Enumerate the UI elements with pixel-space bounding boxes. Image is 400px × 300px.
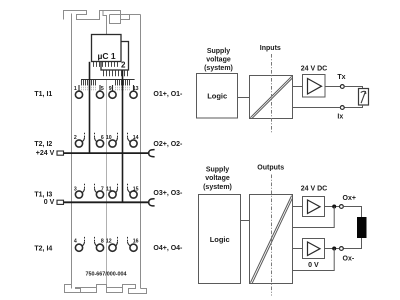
svg-text:4: 4 bbox=[74, 239, 77, 245]
svg-text:14: 14 bbox=[133, 135, 139, 141]
svg-text:T1, I3: T1, I3 bbox=[34, 191, 52, 198]
terminal 10 bbox=[106, 132, 118, 147]
wire isolator to driver1 bbox=[293, 206, 303, 208]
uC2 pins bbox=[104, 70, 128, 76]
svg-text:Logic: Logic bbox=[210, 235, 230, 244]
driver amp box output+ bbox=[303, 197, 325, 217]
svg-text:Logic: Logic bbox=[207, 92, 227, 101]
comb dotted teeth right bbox=[116, 85, 130, 91]
contact comb bar bbox=[81, 79, 135, 81]
comb dotted teeth left bbox=[82, 85, 96, 91]
isolator (galvanic separation) bottom bbox=[250, 195, 293, 284]
svg-text:Supply: Supply bbox=[206, 167, 229, 174]
load (actuator) bbox=[357, 217, 367, 238]
sensor (proximity switch) bbox=[359, 89, 369, 106]
wire 0V feed (uC2 to 0V rail) bbox=[122, 70, 124, 202]
module center separator bbox=[106, 80, 108, 285]
svg-text:O1+, O1-: O1+, O1- bbox=[153, 91, 183, 98]
terminal 11 bbox=[106, 183, 117, 198]
svg-text:Supply: Supply bbox=[207, 48, 230, 55]
svg-text:16: 16 bbox=[133, 239, 139, 245]
node Ix bbox=[340, 106, 344, 110]
isolator (galvanic separation) top bbox=[250, 76, 293, 119]
terminal 5 bbox=[96, 85, 104, 98]
module housing bottom profile bbox=[65, 285, 147, 294]
uC1 pins bbox=[94, 62, 118, 67]
terminal 2 bbox=[74, 132, 85, 147]
terminal 12 bbox=[106, 236, 118, 251]
wire logic to isolator bottom bbox=[241, 220, 250, 222]
label Supply voltage (system) bottom bbox=[203, 167, 232, 192]
terminal 15 bbox=[128, 183, 139, 198]
terminal 3 bbox=[74, 183, 85, 198]
svg-text:+24 V: +24 V bbox=[36, 150, 55, 157]
terminal 8 bbox=[95, 236, 104, 251]
svg-text:Inputs: Inputs bbox=[260, 45, 281, 52]
isolation boundary dash-dot top bbox=[271, 54, 273, 133]
svg-text:O4+, O4-: O4+, O4- bbox=[153, 245, 183, 252]
terminal 9 bbox=[109, 85, 116, 98]
0V left tab connector bbox=[57, 200, 64, 204]
0V bus rail bbox=[64, 201, 150, 203]
svg-text:6: 6 bbox=[101, 135, 104, 141]
svg-text:750-667/000-004: 750-667/000-004 bbox=[85, 272, 126, 278]
+24V left tab connector bbox=[57, 151, 64, 155]
isolation boundary dash-dot bottom bbox=[271, 175, 273, 296]
wire driver to Tx bbox=[325, 86, 340, 88]
svg-text:O2+, O2-: O2+, O2- bbox=[153, 141, 183, 148]
feedback wire output- bbox=[293, 249, 335, 271]
svg-text:Tx: Tx bbox=[337, 74, 345, 81]
+24V bus rail bbox=[64, 152, 150, 154]
svg-text:8: 8 bbox=[101, 239, 104, 245]
svg-text:(system): (system) bbox=[203, 184, 232, 191]
terminal 4 bbox=[74, 236, 85, 251]
wire isolator to driver2 bbox=[293, 248, 303, 250]
svg-text:10: 10 bbox=[106, 135, 112, 141]
svg-text:11: 11 bbox=[106, 186, 112, 192]
terminal 14 bbox=[128, 132, 139, 147]
wire from data bus contact to uC bbox=[103, 11, 107, 35]
svg-text:voltage: voltage bbox=[205, 175, 230, 182]
+24V right socket connector bbox=[149, 150, 155, 157]
node Ox- bbox=[340, 247, 344, 251]
svg-text:3: 3 bbox=[74, 186, 77, 192]
feedback wire output+ bbox=[293, 207, 335, 228]
wire Ox- to driver2 bbox=[325, 248, 340, 250]
svg-text:(system): (system) bbox=[204, 65, 233, 72]
svg-text:Ox+: Ox+ bbox=[343, 195, 356, 202]
svg-text:0 V: 0 V bbox=[44, 199, 55, 206]
wire Ox+ to load bbox=[343, 207, 361, 218]
svg-text:2: 2 bbox=[121, 61, 126, 70]
svg-text:T1, I1: T1, I1 bbox=[34, 91, 52, 98]
wire isolator to driver top bbox=[293, 86, 303, 88]
logic box bottom bbox=[199, 195, 241, 284]
node Ox+ bbox=[340, 205, 344, 209]
svg-text:2: 2 bbox=[74, 135, 77, 141]
svg-text:5: 5 bbox=[101, 86, 104, 92]
junction dot output- bbox=[332, 247, 336, 251]
svg-text:O3+, O3-: O3+, O3- bbox=[153, 190, 183, 197]
wire Ix to isolator bbox=[293, 107, 341, 109]
wire +24V feed (uC to +24V rail) bbox=[89, 62, 91, 153]
node Tx bbox=[340, 85, 344, 89]
microcontroller uC 1 (front box) bbox=[92, 35, 122, 62]
driver amp box output- bbox=[303, 239, 325, 259]
svg-text:12: 12 bbox=[106, 239, 112, 245]
module right edge bbox=[140, 15, 142, 289]
svg-text:voltage: voltage bbox=[206, 57, 231, 64]
svg-text:Outputs: Outputs bbox=[257, 165, 284, 172]
terminal 16 bbox=[128, 236, 139, 251]
svg-text:T2, I4: T2, I4 bbox=[34, 245, 52, 252]
svg-text:0 V: 0 V bbox=[308, 262, 319, 269]
svg-text:1: 1 bbox=[74, 86, 77, 92]
module housing top profile bbox=[64, 11, 141, 24]
0V right socket connector bbox=[149, 199, 155, 206]
svg-text:Ix: Ix bbox=[337, 114, 343, 121]
label Supply voltage (system) top bbox=[204, 48, 233, 72]
driver amp box top bbox=[303, 75, 326, 98]
svg-text:24 V DC: 24 V DC bbox=[301, 186, 327, 193]
terminal 6 bbox=[95, 132, 104, 147]
svg-text:T2, I2: T2, I2 bbox=[34, 141, 52, 148]
svg-text:13: 13 bbox=[133, 86, 139, 92]
comb teeth right band bbox=[116, 80, 130, 86]
wire sensor to Ix bbox=[344, 105, 362, 108]
wire logic to isolator top bbox=[238, 97, 250, 99]
wire driver1 to node bbox=[325, 206, 340, 208]
logic box top bbox=[197, 74, 238, 119]
comb teeth left band bbox=[82, 80, 96, 86]
junction dot output+ bbox=[332, 205, 336, 209]
module left edge bbox=[71, 14, 73, 289]
terminal 7 bbox=[95, 183, 104, 198]
svg-text:Ox-: Ox- bbox=[343, 256, 355, 263]
svg-text:24 V DC: 24 V DC bbox=[301, 66, 327, 73]
terminal 1 bbox=[74, 85, 83, 98]
svg-text:µC 1: µC 1 bbox=[97, 51, 115, 61]
terminal 13 bbox=[130, 85, 139, 98]
microcontroller uC 2 (rear box) bbox=[101, 42, 129, 71]
svg-text:9: 9 bbox=[109, 86, 112, 92]
svg-text:7: 7 bbox=[101, 186, 104, 192]
wire load to Ox- bbox=[343, 238, 361, 249]
wire Tx to sensor bbox=[344, 87, 362, 89]
svg-text:15: 15 bbox=[133, 186, 139, 192]
